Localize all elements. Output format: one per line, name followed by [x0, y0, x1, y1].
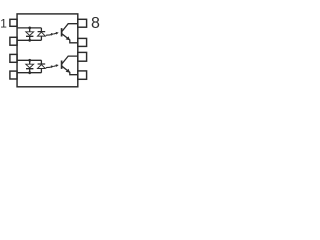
diode D1 triangle [26, 32, 34, 36]
junction dot bottom [28, 39, 31, 42]
light arrow ch1 [46, 35, 51, 36]
Q2 collector to pin 6 [62, 56, 78, 64]
wire top rail ch1 [17, 27, 41, 29]
Q1 collector to pin 8 [62, 24, 78, 32]
diode D3 triangle [26, 64, 34, 68]
IC body outline U1 [17, 14, 78, 87]
pin 5 pad [78, 71, 87, 79]
junction dot top [28, 59, 31, 62]
pin 3 pad [10, 54, 17, 62]
pin 8 pad [78, 19, 87, 27]
pin 4 pad [10, 71, 17, 79]
Q2 emitter arrowhead [66, 69, 70, 73]
pin 1 pad [10, 19, 17, 26]
wire bottom rail ch2 [17, 72, 41, 74]
phototransistor Q2 base bar [61, 61, 63, 69]
diode D4 (right, pointing up) [38, 60, 46, 72]
junction dot bottom [28, 71, 31, 74]
diode D1 (left, pointing down) [26, 28, 33, 40]
Q1 emitter to pin 7 [62, 34, 78, 43]
Q1 emitter arrowhead [66, 36, 70, 40]
Q2 emitter to pin 5 [62, 66, 78, 75]
diode D2 triangle [38, 32, 46, 36]
wire top rail ch2 [17, 59, 41, 61]
light arrow ch2 [46, 67, 51, 68]
channel 1 optocoupler [17, 24, 78, 43]
diode D3 (left, pointing down) [26, 60, 33, 72]
svg-text:8: 8 [91, 15, 100, 32]
pin 6 pad [78, 52, 87, 61]
pin 7 pad [78, 38, 87, 46]
junction dot top [28, 27, 31, 30]
pin 2 pad [10, 37, 17, 45]
phototransistor Q1 base bar [61, 28, 63, 36]
diode D4 triangle [38, 65, 46, 69]
channel 2 optocoupler [17, 56, 78, 75]
diode D2 (right, pointing up) [38, 28, 46, 40]
svg-text:1: 1 [0, 17, 7, 31]
wire bottom rail ch1 [17, 39, 41, 41]
